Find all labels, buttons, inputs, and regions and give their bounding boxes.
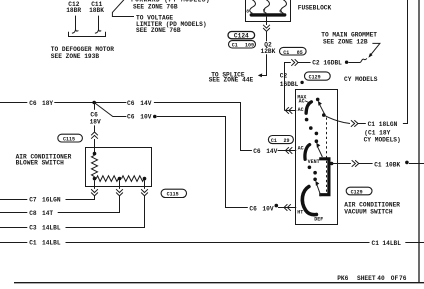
svg-text:C6: C6 [90, 111, 98, 118]
svg-text:85: 85 [297, 50, 303, 56]
fuse element pin 7 [264, 0, 270, 13]
wire C2 16DBL riser [285, 63, 291, 111]
svg-text:C6: C6 [127, 100, 135, 107]
connector chevrons right C2 [291, 59, 298, 66]
svg-text:16DBL: 16DBL [280, 81, 299, 88]
wire C11 to defogger motor [95, 16, 101, 34]
svg-text:PK6: PK6 [337, 275, 348, 282]
node resistor tap 1 [93, 177, 97, 181]
svg-text:16LGN: 16LGN [42, 197, 61, 204]
wiper arrow to VENT ports [318, 147, 323, 157]
svg-text:AC: AC [298, 146, 304, 152]
node top of resistor [93, 152, 97, 156]
connector chevrons up at blower switch [91, 132, 98, 139]
wire into blower switch [94, 139, 96, 154]
svg-text:18V: 18V [90, 119, 101, 126]
connector chevrons down pin3 [141, 189, 148, 196]
dashed line in vacuum switch [326, 118, 328, 193]
port MAX AC [316, 98, 320, 102]
splice on C6 10V at switch [275, 204, 279, 208]
wire C1 14LBL [0, 242, 27, 244]
air conditioner vacuum switch box [296, 90, 338, 225]
svg-text:C1 18LGN: C1 18LGN [368, 121, 398, 128]
connector chevrons right C1 18LGN [351, 120, 358, 127]
pin 2 blower switch [119, 180, 121, 189]
page border right [418, 0, 420, 283]
fuseblock bus bar [251, 13, 284, 16]
svg-text:10V: 10V [140, 113, 151, 120]
wire C6 10V to vacuum switch [157, 117, 248, 208]
wire C6 18Y from left [0, 102, 27, 104]
contact bracket common [319, 157, 330, 196]
svg-text:C6: C6 [29, 100, 37, 107]
wire C8 14T [0, 212, 27, 214]
svg-text:18BR: 18BR [66, 7, 81, 14]
wire C1 18LGN to top [403, 0, 408, 124]
wire break squiggle [360, 58, 367, 62]
svg-text:C6: C6 [127, 113, 135, 120]
svg-text:AIR CONDITIONER: AIR CONDITIONER [344, 201, 400, 208]
svg-text:C1: C1 [29, 240, 37, 247]
wire Q2 to splice [260, 54, 266, 75]
node resistor tap 3 [143, 177, 147, 181]
splice on C2 [345, 61, 348, 64]
wire C6 18V [94, 125, 96, 131]
svg-text:C1 10BK: C1 10BK [374, 162, 400, 169]
splice on C1 10BK [405, 161, 409, 165]
wire C6 18V drop to blower switch [94, 103, 96, 110]
svg-text:40: 40 [377, 275, 385, 282]
svg-text:76: 76 [399, 275, 407, 282]
svg-text:29: 29 [284, 138, 290, 144]
connector C129 oval bottom [346, 187, 372, 195]
resistor vertical blower [92, 155, 98, 176]
svg-text:(C1 18Y: (C1 18Y [364, 129, 390, 136]
connector C115 oval left [58, 134, 83, 142]
svg-text:C3: C3 [29, 225, 37, 232]
wiper arrow lower [317, 185, 321, 197]
svg-text:BLOWER SWITCH: BLOWER SWITCH [16, 160, 65, 167]
contact arc HT [302, 187, 316, 215]
wire C2 into AC port [285, 110, 297, 112]
junction on bracket [330, 162, 334, 166]
wire C1 10BK to right edge [409, 163, 424, 165]
fuse element pin 6 [281, 0, 287, 13]
wire Q2 [266, 31, 268, 41]
contact arc MAX AC [306, 102, 311, 113]
svg-text:7: 7 [263, 8, 266, 14]
connector chevrons left C6 10V [284, 204, 291, 211]
svg-text:SEE ZONE 76B: SEE ZONE 76B [133, 4, 178, 11]
connector chevrons left C2 [286, 107, 293, 114]
svg-text:DEF: DEF [314, 217, 323, 223]
svg-text:SEE ZONE 76B: SEE ZONE 76B [136, 27, 181, 34]
fuse element pin 8 [250, 0, 256, 13]
fuseblock F1 box [246, 0, 291, 22]
svg-text:C2 16DBL: C2 16DBL [312, 59, 342, 66]
svg-text:109: 109 [245, 43, 254, 49]
bracket to defogger motor [69, 32, 106, 37]
svg-text:C2: C2 [280, 73, 288, 80]
connector chevrons down pin2 [116, 189, 123, 196]
connector chevrons left C6 14V [286, 147, 293, 154]
pin 3 blower switch [144, 180, 146, 189]
svg-text:OF: OF [391, 275, 399, 282]
page border bottom [14, 282, 424, 284]
svg-text:C8: C8 [29, 210, 37, 217]
svg-text:CY MODELS): CY MODELS) [364, 137, 401, 144]
tick MAX AC to contact [305, 101, 309, 103]
svg-text:SHEET: SHEET [357, 275, 376, 282]
svg-text:C1: C1 [283, 50, 289, 56]
resistor horizontal 1 [96, 176, 118, 182]
svg-text:C115: C115 [167, 192, 179, 198]
svg-text:C129: C129 [351, 189, 363, 195]
svg-text:AC: AC [298, 107, 304, 113]
wire Q2 from fuseblock [266, 17, 268, 25]
contact arc AC [305, 145, 310, 160]
resistor horizontal 2 [122, 176, 144, 182]
connector C129 oval top [305, 72, 331, 80]
svg-text:AC: AC [299, 98, 305, 104]
node resistor tap 2 [118, 177, 122, 181]
svg-text:C129: C129 [309, 74, 321, 80]
svg-text:14V: 14V [140, 100, 151, 107]
wire C6 [54, 102, 126, 104]
svg-text:C1: C1 [271, 138, 277, 144]
svg-text:VENT: VENT [308, 159, 320, 165]
svg-text:14LBL: 14LBL [42, 240, 61, 247]
svg-text:HT: HT [297, 209, 303, 215]
svg-text:C124: C124 [234, 33, 249, 40]
port dots arc [305, 118, 309, 122]
wiper arrow to MAX AC [320, 105, 325, 115]
svg-text:6: 6 [279, 8, 282, 14]
wire into AC port [278, 150, 297, 152]
connector C1 29 oval [268, 136, 293, 144]
wire into HT port [278, 207, 296, 209]
svg-text:C115: C115 [63, 137, 75, 143]
svg-text:TO MAIN GROMMET: TO MAIN GROMMET [321, 31, 377, 38]
connector chevrons right C1 10BK [352, 160, 359, 167]
leader arrow to main grommet note [370, 43, 380, 56]
wire C3 14LBL [0, 227, 27, 229]
connector chevrons down at fuseblock output [263, 25, 270, 32]
wire C12 to defogger motor [72, 16, 79, 34]
pin 1 blower switch [94, 180, 96, 189]
svg-text:14T: 14T [42, 210, 53, 217]
svg-text:12BK: 12BK [261, 48, 276, 55]
svg-text:14LBL: 14LBL [382, 240, 401, 247]
leader to voltage limiter [112, 0, 134, 17]
splice on C6 10V [153, 115, 157, 119]
connector chevrons down pin1 [91, 189, 98, 196]
svg-text:C1: C1 [372, 240, 380, 247]
wire C1 18LGN [358, 123, 366, 125]
svg-text:C6: C6 [249, 205, 257, 212]
wire C6 10V branch [94, 103, 126, 117]
wire C2 16DBL horizontal [298, 62, 311, 64]
svg-text:SEE ZONE 12B: SEE ZONE 12B [323, 39, 368, 46]
svg-text:SEE ZONE 193B: SEE ZONE 193B [51, 53, 100, 60]
splice mark after 16DBL [300, 81, 303, 84]
svg-text:14V: 14V [266, 148, 277, 155]
svg-text:VACUUM SWITCH: VACUUM SWITCH [344, 209, 393, 216]
junction node C6 [92, 101, 96, 105]
wire C7 16LGN [0, 199, 27, 201]
svg-text:SEE ZONE 44E: SEE ZONE 44E [209, 77, 254, 84]
svg-text:18BK: 18BK [89, 7, 104, 14]
connector C1 109 oval [229, 41, 256, 48]
svg-text:FUSEBLOCK: FUSEBLOCK [298, 5, 332, 12]
svg-text:14LBL: 14LBL [42, 225, 61, 232]
connector C124 oval [228, 32, 255, 39]
svg-text:CY MODELS: CY MODELS [344, 76, 378, 83]
svg-text:18Y: 18Y [42, 100, 53, 107]
wire C6 14V to vacuum switch [154, 103, 252, 151]
connector C115 oval right [161, 189, 186, 197]
wiper pivot node [322, 113, 326, 117]
port dots lower [308, 166, 312, 170]
air conditioner blower switch box [86, 148, 152, 187]
wire from pivot to C1 18LGN [324, 115, 350, 123]
svg-text:C7: C7 [29, 197, 37, 204]
connector C1 85 oval [280, 47, 307, 55]
svg-text:10V: 10V [262, 205, 273, 212]
svg-text:8: 8 [246, 8, 249, 14]
svg-text:C6: C6 [253, 148, 261, 155]
arrowhead to splice note [258, 73, 262, 77]
wire C1 10BK [331, 163, 351, 165]
wire C2 to break [349, 62, 360, 64]
svg-text:C1: C1 [232, 43, 238, 49]
